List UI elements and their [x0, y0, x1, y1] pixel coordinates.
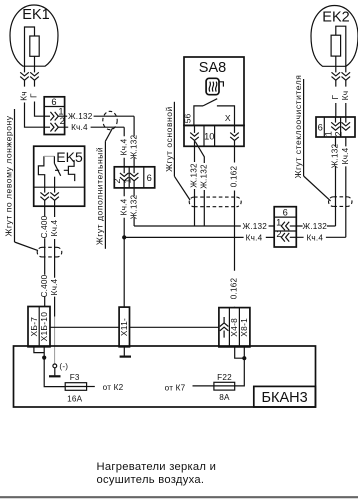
svg-text:1: 1: [276, 217, 281, 227]
svg-text:6: 6: [283, 207, 288, 217]
wire Х1Б-10 down to fuse F3: [44, 347, 65, 387]
svg-text:0.162: 0.162: [230, 278, 239, 300]
wire Кч.4 below middle block: [123, 181, 125, 307]
wire Ж.132 row1: [65, 115, 135, 117]
svg-text:8A: 8A: [219, 393, 230, 402]
wire EK1 right to pin1: [35, 102, 45, 117]
terminal (-): [53, 364, 57, 368]
harness wrap capsule (left low): [37, 247, 62, 257]
pin 56: [190, 133, 199, 141]
svg-text:F22: F22: [217, 373, 232, 382]
harness wrap capsule (centre): [189, 197, 241, 207]
wire Ж.132 branch from SA8 pin: [195, 142, 204, 227]
bus Кч.4: [124, 236, 274, 238]
pin 2: [120, 173, 129, 181]
connector block (middle, 6-pin): [112, 167, 155, 188]
node Кч.4 bus: [122, 235, 126, 239]
leader to Жгут дополнительный: [105, 128, 112, 141]
pin in connector: [220, 323, 229, 331]
svg-text:Кч: Кч: [20, 91, 29, 100]
connector block below EK2 (6-pin): [316, 117, 355, 137]
svg-text:16A: 16A: [67, 395, 83, 404]
svg-text:Ж.132: Ж.132: [303, 222, 328, 231]
pin 1: [50, 112, 58, 121]
svg-text:от К7: от К7: [165, 384, 186, 393]
wire link bus: [50, 326, 219, 328]
svg-text:Жгут по левому лонжерону: Жгут по левому лонжерону: [4, 115, 14, 236]
svg-text:Кч.4: Кч.4: [119, 138, 128, 155]
svg-text:Жгут стеклоочистителя: Жгут стеклоочистителя: [293, 75, 303, 179]
switch SA8: [183, 57, 244, 125]
svg-text:Кч.4: Кч.4: [246, 233, 263, 242]
connector pins EK1: [20, 72, 29, 80]
svg-text:Ж.132: Ж.132: [68, 112, 93, 121]
pin 2: [342, 122, 351, 130]
svg-text:Х4-8: Х4-8: [229, 318, 239, 337]
pin 2: [50, 123, 58, 132]
ground: [49, 375, 61, 377]
svg-text:6: 6: [318, 123, 323, 133]
svg-text:Кч.4: Кч.4: [50, 219, 59, 236]
wire EK2 loop: [336, 26, 346, 72]
svg-text:2: 2: [60, 116, 65, 126]
svg-text:X: X: [225, 113, 231, 123]
wire Ж.132 below middle block: [133, 181, 135, 226]
switch contacts: [194, 106, 235, 126]
thermal contact: [68, 160, 74, 181]
svg-text:ХБ-7: ХБ-7: [29, 317, 39, 337]
fuse F3 16A: [65, 373, 95, 403]
svg-text:Жгут дополнительный: Жгут дополнительный: [95, 147, 105, 245]
wire EK2 left lead: [335, 56, 337, 72]
wire С.400: [44, 206, 46, 306]
resistor in EK1: [30, 36, 39, 56]
svg-text:Ж.132: Ж.132: [129, 195, 138, 220]
svg-text:Х8-1: Х8-1: [239, 318, 249, 337]
harness wrap ellipse (left): [103, 111, 117, 129]
mirror heat icon: [206, 78, 219, 94]
wire Ж.132 right of block: [296, 225, 335, 227]
pin 2: [281, 233, 289, 242]
svg-text:от К2: от К2: [103, 383, 124, 392]
svg-text:Кч.4: Кч.4: [71, 123, 88, 132]
connector block X1 (6-pin) below EK1: [44, 97, 65, 135]
wire Ж.132 up to EK2 connector: [335, 137, 337, 226]
thermal switch blade: [54, 163, 60, 175]
BKAN3 unit box: [14, 346, 316, 407]
svg-text:Г: Г: [30, 93, 39, 98]
node: [242, 356, 246, 360]
wire Х4-8 to node: [235, 347, 245, 358]
svg-text:Ж.132: Ж.132: [190, 163, 199, 188]
svg-text:EK2: EK2: [322, 10, 349, 26]
connector pins EK2: [332, 72, 341, 80]
connector Х11-: [119, 307, 130, 347]
wire Х8-1 down to fuse F22: [235, 347, 245, 386]
wires into EK2 connector: [336, 103, 346, 117]
svg-text:Кч.4: Кч.4: [341, 147, 350, 164]
svg-text:Ж.132: Ж.132: [243, 222, 268, 231]
svg-text:56: 56: [183, 114, 193, 124]
svg-text:Х1Б-10: Х1Б-10: [39, 312, 49, 342]
wire Кч.4: [54, 206, 56, 316]
heater EK1: [10, 5, 58, 72]
svg-text:Х11-: Х11-: [119, 318, 129, 336]
wire Кч.4 down to middle block: [123, 127, 125, 167]
svg-text:EK1: EK1: [22, 7, 49, 23]
pin 1: [331, 122, 340, 130]
svg-text:С.400: С.400: [40, 215, 49, 238]
wire stubs below EK2: [336, 80, 346, 86]
wire EK1 left to pin2: [25, 103, 45, 128]
svg-text:Ж.132: Ж.132: [199, 164, 208, 189]
wire Ж.132 from SA8 pin: [194, 141, 196, 227]
pin X: [230, 133, 239, 141]
heating element: [38, 156, 44, 187]
wire 0.162 from SA8 pin X: [234, 141, 236, 308]
svg-text:Г: Г: [331, 94, 340, 99]
heater EK5 (air dryer): [34, 146, 85, 206]
svg-text:Нагреватели зеркал и: Нагреватели зеркал и: [97, 461, 217, 473]
bottom rule: [0, 496, 358, 498]
fuse F22 8A: [193, 373, 235, 402]
connector ХБ-7 / Х1Б-10: [28, 307, 50, 347]
svg-text:10: 10: [204, 131, 214, 141]
svg-text:Кч.4: Кч.4: [50, 278, 59, 295]
svg-text:Жгут основной: Жгут основной: [164, 106, 174, 172]
svg-text:1: 1: [324, 131, 334, 136]
svg-text:6: 6: [51, 97, 56, 107]
connector block (right, 6-pin): [274, 207, 296, 247]
wire Кч.4 row2: [65, 126, 125, 128]
svg-text:С.400: С.400: [40, 274, 49, 297]
wire Ж.132 down to middle block: [133, 116, 135, 167]
wire ХБ-7 to node: [34, 347, 44, 353]
svg-text:Ж.132: Ж.132: [331, 144, 340, 169]
svg-text:EK5: EK5: [56, 149, 83, 165]
heater EK2: [311, 6, 358, 73]
pin 1: [130, 173, 139, 181]
wire Кч.4 up to EK2 connector: [345, 137, 347, 237]
wire Кч.4 right of block: [296, 236, 346, 238]
node: [42, 356, 46, 360]
svg-text:Кч: Кч: [341, 91, 350, 100]
svg-text:0.162: 0.162: [230, 166, 239, 188]
svg-text:(-): (-): [59, 362, 68, 371]
pins EK5: [40, 192, 49, 200]
harness wrap ellipse (right): [329, 197, 352, 207]
svg-text:Ж.132: Ж.132: [129, 135, 138, 160]
svg-text:Кч.4: Кч.4: [306, 233, 323, 242]
label box БКАН3: [254, 386, 316, 407]
svg-text:2: 2: [112, 178, 122, 183]
pin 1: [281, 222, 289, 231]
svg-text:осушитель воздуха.: осушитель воздуха.: [97, 474, 205, 486]
svg-text:F3: F3: [70, 373, 80, 382]
ground below Х11-: [123, 347, 125, 356]
svg-text:БКАН3: БКАН3: [262, 390, 308, 406]
svg-text:SA8: SA8: [199, 60, 226, 76]
bus Ж.132: [134, 225, 274, 227]
connector row SA8: [184, 125, 244, 146]
svg-text:2: 2: [334, 131, 344, 136]
wire stubs below EK1: [25, 80, 35, 86]
svg-text:6: 6: [147, 173, 152, 183]
wire EK1 loop: [25, 27, 35, 72]
svg-text:Кч.4: Кч.4: [119, 198, 128, 215]
resistor in EK2: [331, 35, 341, 56]
connector Х4-8 / Х8-1: [219, 308, 250, 347]
wire EK1 right lead: [34, 56, 36, 72]
